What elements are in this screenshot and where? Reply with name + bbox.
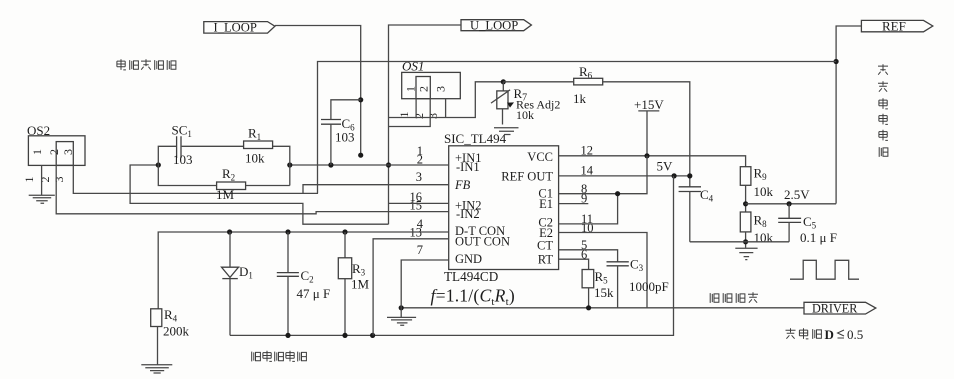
- label 电流采样值: [117, 59, 176, 70]
- capacitor C4: [679, 187, 714, 242]
- wire soft-start bottom rail: [230, 176, 674, 336]
- wire ground rail C4 to C5: [690, 241, 789, 243]
- resistor R8: [740, 212, 773, 245]
- diode D1: [222, 232, 253, 335]
- ground below GND pin: [387, 317, 416, 325]
- label 驱动信号: [710, 292, 758, 303]
- svg-text:SIC_TL494: SIC_TL494: [444, 131, 507, 146]
- wire RT to R5: [559, 259, 589, 269]
- wire R4 to ground: [157, 327, 159, 365]
- wire I_LOOP to +IN1: [275, 26, 361, 156]
- node right: [287, 162, 292, 167]
- connector OS1: [402, 59, 461, 99]
- capacitor C2: [277, 232, 330, 335]
- svg-text:15: 15: [410, 199, 423, 213]
- node REF/top-rail junction: [834, 59, 839, 64]
- wire GND pin to ground: [401, 260, 449, 317]
- svg-text:10k: 10k: [245, 151, 265, 166]
- svg-text:103: 103: [173, 152, 193, 167]
- node C5 top: [787, 201, 792, 206]
- svg-text:OS1: OS1: [402, 59, 424, 74]
- wire DRIVER rail: [401, 307, 804, 309]
- svg-text:15k: 15k: [594, 285, 614, 300]
- svg-text:GND: GND: [455, 252, 482, 266]
- svg-text:-IN2: -IN2: [456, 207, 480, 221]
- resistor R6: [573, 64, 603, 106]
- wire R9 to R8: [745, 185, 747, 212]
- node R8 bottom: [743, 239, 748, 244]
- wire U_LOOP vertical: [389, 25, 462, 224]
- IC pin numbers left: [410, 144, 424, 257]
- svg-text:0.5: 0.5: [847, 327, 863, 342]
- svg-text:1M: 1M: [216, 187, 235, 202]
- node C2 bottom: [285, 333, 290, 338]
- svg-text:E1: E1: [539, 197, 553, 211]
- connector OS2: [27, 123, 85, 165]
- wire OS1 pin3 stub: [445, 99, 447, 118]
- flag DRIVER: [804, 302, 876, 316]
- wire +IN2 net route to left node: [130, 165, 388, 224]
- svg-text:I_LOOP: I_LOOP: [214, 20, 257, 34]
- resistor R2: [216, 166, 246, 202]
- resistor R1: [244, 126, 273, 166]
- svg-text:10k: 10k: [754, 230, 774, 245]
- IC op-amp U1 SIC_TL494 box: [444, 131, 559, 284]
- node 2.5V: [743, 201, 748, 206]
- node 5V: [672, 173, 677, 178]
- resistor R4: [151, 307, 190, 339]
- svg-text:RT: RT: [538, 252, 554, 266]
- svg-text:REF OUT: REF OUT: [501, 169, 553, 183]
- node R5 bottom: [586, 305, 591, 310]
- resistor R3: [338, 232, 369, 335]
- svg-text:0.1 μ F: 0.1 μ F: [800, 230, 837, 245]
- wire R8 bottom: [745, 232, 747, 248]
- node C6 bottom: [328, 162, 333, 167]
- capacitor C5: [778, 204, 837, 245]
- potentiometer R7: [491, 79, 560, 124]
- wire R7 node to R6: [503, 81, 573, 83]
- wire parallel loop top: [158, 146, 176, 165]
- wire R5 bottom to rail: [588, 288, 590, 308]
- svg-text:2: 2: [38, 177, 52, 183]
- svg-text:1k: 1k: [573, 91, 587, 106]
- svg-text:3: 3: [416, 170, 422, 184]
- svg-text:5V: 5V: [657, 159, 674, 174]
- svg-text:+15V: +15V: [634, 97, 664, 112]
- svg-text:1M: 1M: [351, 276, 370, 291]
- node D1 top: [227, 229, 232, 234]
- node -IN1/U_LOOP junction: [386, 162, 391, 167]
- wire top rail to FB net: [318, 62, 837, 194]
- wire 2.5V rail: [746, 203, 837, 205]
- wire OS2 pin1 to ground: [41, 165, 43, 195]
- wire FB jog: [303, 185, 449, 194]
- svg-text:2.5V: 2.5V: [784, 187, 810, 202]
- capacitor SC1: [172, 123, 193, 168]
- label 占空比D≤0.5: [786, 328, 822, 339]
- svg-text:3: 3: [61, 149, 75, 155]
- capacitor C3: [607, 256, 669, 308]
- wire OS1 pin1 pin3 to R6/R7 node: [389, 82, 504, 118]
- node +IN1 junction: [358, 153, 363, 158]
- node REFOUT/C4: [687, 173, 692, 178]
- svg-text:1: 1: [30, 149, 44, 155]
- svg-text:DRIVER: DRIVER: [812, 302, 858, 316]
- wire -IN1 rail: [290, 164, 449, 166]
- wire D-T CON soft-start rail: [158, 232, 449, 309]
- svg-text:3: 3: [52, 177, 66, 183]
- svg-text:3: 3: [434, 86, 448, 92]
- node GND rail left: [399, 305, 404, 310]
- svg-text:10k: 10k: [516, 108, 534, 122]
- wire REF OUT rail: [559, 175, 690, 177]
- wire CT to C3: [559, 250, 618, 262]
- wire loop bottom left: [158, 165, 216, 186]
- svg-text:-IN1: -IN1: [456, 160, 480, 174]
- ground below R7: [494, 128, 519, 135]
- svg-text:TL494CD: TL494CD: [444, 269, 498, 284]
- svg-text:1000pF: 1000pF: [629, 279, 669, 294]
- node R3 bottom: [342, 333, 347, 338]
- wire R1 right to node: [273, 146, 290, 185]
- wire R2 right to node: [246, 185, 290, 187]
- ground below R4: [141, 365, 172, 373]
- waveform square wave: [790, 260, 859, 279]
- flag U_LOOP: [461, 19, 531, 33]
- wire C2 to C1: [559, 194, 618, 224]
- svg-text:VCC: VCC: [527, 150, 553, 164]
- wire SC1 to R1: [182, 145, 244, 147]
- wire C1 to VCC: [559, 156, 647, 194]
- svg-text:2: 2: [417, 86, 431, 92]
- power +15V: [634, 97, 664, 156]
- capacitor C6: [321, 100, 361, 165]
- wire OS2 pin3 / FB net: [73, 165, 318, 193]
- resistor R5: [582, 269, 614, 300]
- svg-text:1: 1: [404, 86, 418, 92]
- node R3 top: [342, 229, 347, 234]
- svg-text:CT: CT: [537, 239, 553, 253]
- ground below OS2: [29, 195, 55, 203]
- svg-text:47 μ F: 47 μ F: [297, 286, 331, 301]
- label 参考电压可调 vertical: [878, 64, 888, 157]
- node C2 top: [285, 229, 290, 234]
- svg-text:7: 7: [417, 243, 423, 257]
- ground below R8: [735, 248, 757, 259]
- label 软启动电路: [252, 351, 307, 362]
- node C1 junction: [615, 191, 620, 196]
- IC pin labels left: [454, 151, 510, 266]
- wire OS1 pin1 stub: [415, 99, 417, 118]
- resistor R9: [740, 166, 773, 199]
- wire R6 to C4 vertical: [603, 82, 690, 187]
- node +15V: [644, 153, 649, 158]
- flag I_LOOP: [204, 20, 275, 34]
- wire OUT CON to bottom rail: [373, 239, 449, 336]
- svg-text:10k: 10k: [754, 184, 774, 199]
- svg-text:U_LOOP: U_LOOP: [470, 19, 518, 33]
- svg-text:D: D: [825, 327, 834, 342]
- wire E1 stub: [559, 203, 589, 205]
- wire REF down to 2.5V rail: [836, 26, 861, 204]
- node left: [156, 162, 161, 167]
- svg-text:REF: REF: [882, 18, 906, 33]
- svg-text:200k: 200k: [163, 324, 190, 339]
- node I_LOOP/C6 junction: [358, 97, 363, 102]
- svg-text:1: 1: [22, 177, 36, 183]
- flag REF: [861, 18, 932, 33]
- svg-text:103: 103: [335, 130, 355, 145]
- IC pin numbers right: [581, 143, 594, 261]
- svg-text:2: 2: [47, 149, 61, 155]
- svg-text:OUT CON: OUT CON: [455, 235, 510, 249]
- wire E2 to DRIVER rail: [559, 233, 647, 308]
- node OUT CON bottom: [370, 333, 375, 338]
- svg-text:f=1.1/(CtRt): f=1.1/(CtRt): [431, 286, 515, 309]
- svg-text:1: 1: [397, 112, 411, 118]
- svg-text:FB: FB: [454, 178, 471, 192]
- wire OS1 pin2 to U_LOOP vert: [389, 99, 431, 127]
- wire OS2 pin2 / -IN2 net: [56, 165, 449, 213]
- wire +IN2 pin16 stub: [389, 202, 449, 204]
- IC pin labels right: [501, 150, 553, 267]
- wire VCC rail: [559, 156, 746, 167]
